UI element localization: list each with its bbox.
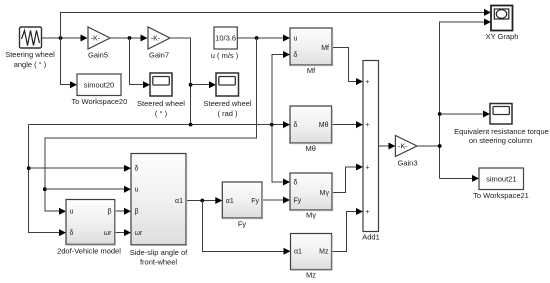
svg-text:δ: δ [294, 122, 298, 129]
node H junction u to side-slip [43, 187, 47, 191]
svg-text:( ° ): ( ° ) [155, 109, 168, 118]
svg-text:α1: α1 [294, 249, 302, 256]
wire: u line down and left to 2dof u input [45, 38, 257, 211]
svg-text:Gain3: Gain3 [397, 158, 417, 167]
wire: node F up to Mf delta input [272, 55, 284, 125]
svg-text:simout21: simout21 [486, 175, 516, 184]
svg-text:u: u [70, 209, 74, 216]
wire: node D to Steered wheel (rad) scope [191, 84, 210, 86]
wire: Fy output to Mgamma Fy input [262, 199, 284, 201]
svg-text:α1: α1 [226, 198, 234, 205]
svg-text:Side-slip angle of: Side-slip angle of [130, 248, 188, 257]
svg-text:10/3.6: 10/3.6 [215, 33, 236, 42]
node C junction on u line [255, 36, 259, 40]
svg-text:Mγ: Mγ [320, 190, 330, 197]
node A junction on steering angle line [59, 36, 63, 40]
svg-text:+: + [365, 165, 369, 172]
svg-text:Fy: Fy [251, 198, 259, 205]
wire: delta rail to Mtheta input [29, 124, 284, 126]
svg-text:on steering column: on steering column [469, 136, 532, 145]
scope: Equivalent resistance torque on steering column [454, 104, 549, 146]
node E junction delta rail [189, 123, 193, 127]
svg-text:Mγ: Mγ [306, 211, 316, 220]
svg-text:Steered wheel: Steered wheel [137, 99, 185, 108]
wire: top rail from node A to XY Graph input 1 [61, 12, 485, 38]
constant 10/3.6 [211, 27, 239, 60]
wire: delta rail left branch down to 2dof delta input [29, 125, 60, 233]
node F junction delta rail [270, 123, 274, 127]
node B junction after Gain5 [128, 36, 132, 40]
subsystem Mgamma [290, 173, 333, 220]
svg-text:front-wheel: front-wheel [140, 258, 177, 267]
svg-text:Mθ: Mθ [305, 144, 315, 153]
svg-text:Gain7: Gain7 [149, 50, 169, 59]
svg-text:α1: α1 [175, 198, 183, 205]
wire: constant 10/3.6 to Mf u input [237, 37, 284, 39]
svg-text:β: β [135, 209, 139, 216]
svg-text:Fy: Fy [238, 219, 247, 228]
svg-text:( rad ): ( rad ) [217, 109, 238, 118]
wire: signal gen to Gain5 [42, 37, 82, 39]
wire: node H to side-slip u input [45, 188, 125, 190]
svg-text:+: + [365, 79, 369, 86]
svg-text:ωr: ωr [104, 230, 112, 237]
node I junction alpha1 [200, 199, 204, 203]
subsystem Mz [291, 234, 333, 280]
svg-text:simout20: simout20 [84, 81, 114, 90]
signal generator: Steering wheel angle [5, 27, 55, 69]
svg-text:Gain5: Gain5 [88, 50, 108, 59]
svg-text:Fy: Fy [294, 197, 302, 204]
wire: node F down to Mgamma delta input [272, 125, 284, 182]
subsystem Fy [222, 182, 262, 228]
gain Gain7 [148, 27, 170, 59]
gain Gain5 [88, 27, 110, 59]
svg-text:-K-: -K- [151, 35, 161, 42]
subsystem Mtheta [290, 106, 332, 153]
wire: Mtheta output to Add1 [332, 124, 358, 126]
wire: Mz output to Add1 [332, 212, 358, 252]
wire: Gain5 to Gain7 [110, 37, 142, 39]
XY Graph block [486, 6, 519, 42]
wire: node G to side-slip delta input [29, 167, 125, 169]
wire: node B down to Steered wheel (deg) scope [130, 38, 145, 85]
scope: Steered wheel (rad) [204, 73, 252, 118]
svg-text:Add1: Add1 [362, 233, 380, 242]
To Workspace20 block simout20 [72, 74, 128, 106]
svg-text:u: u [135, 187, 139, 194]
svg-text:To Workspace21: To Workspace21 [473, 191, 529, 200]
svg-text:-K-: -K- [398, 143, 408, 150]
wire: side-slip alpha1 to Fy [186, 200, 216, 202]
wire: Gain3 output to vertical bus [417, 145, 440, 147]
gain Gain3 [395, 136, 417, 168]
svg-text:+: + [365, 122, 369, 129]
To Workspace21 block simout21 [473, 168, 529, 200]
svg-text:angle ( ° ): angle ( ° ) [14, 60, 47, 69]
svg-text:Mz: Mz [319, 249, 329, 256]
svg-text:u: u [294, 35, 298, 42]
scope: Steered wheel (deg) [137, 73, 185, 118]
subsystem Mf [290, 28, 333, 75]
svg-text:β: β [107, 209, 111, 216]
svg-text:Mf: Mf [321, 45, 329, 52]
svg-text:Equivalent resistance torque: Equivalent resistance torque [454, 127, 549, 136]
wire: Mf output to Add1 [332, 48, 357, 82]
node G junction delta to side-slip [27, 166, 31, 170]
svg-text:Mz: Mz [306, 270, 316, 279]
svg-text:Mθ: Mθ [319, 122, 329, 129]
wire: node A down to To Workspace20 [61, 38, 72, 85]
svg-text:ωr: ωr [135, 230, 143, 237]
sum block Add1 [362, 61, 380, 242]
subsystem 2dof-Vehicle model [57, 200, 121, 256]
node J junction Gain3 output [438, 144, 442, 148]
wire: Mgamma output to Add1 [332, 167, 357, 193]
svg-text:XY Graph: XY Graph [486, 32, 519, 41]
svg-text:Steering wheel: Steering wheel [5, 50, 55, 59]
wire: node I down to Mz alpha1 input [202, 201, 284, 252]
wire: bus down to To Workspace21 [440, 177, 473, 179]
wire: 2dof beta to side-slip beta [115, 210, 125, 212]
node K junction to scope [438, 112, 442, 116]
svg-text:δ: δ [294, 179, 298, 186]
svg-text:2dof-Vehicle model: 2dof-Vehicle model [57, 246, 121, 255]
wire: 2dof omega-r to side-slip omega-r [115, 232, 125, 234]
svg-text:+: + [365, 209, 369, 216]
node D junction to rad scope [189, 83, 193, 87]
svg-text:To Workspace20: To Workspace20 [72, 97, 128, 106]
svg-text:δ: δ [135, 166, 139, 173]
svg-text:-K-: -K- [91, 35, 101, 42]
svg-text:Mf: Mf [307, 66, 316, 75]
svg-text:δ: δ [294, 52, 298, 59]
wire: node K to equivalent torque scope [440, 113, 484, 115]
wire: Gain7 output down to delta rail [170, 38, 191, 125]
subsystem Side-slip angle of front-wheel [130, 154, 188, 267]
svg-text:Steered wheel: Steered wheel [204, 99, 252, 108]
wire: vertical bus up to XY Graph input 2 [440, 22, 485, 178]
svg-text:δ: δ [70, 230, 74, 237]
svg-text:u ( m/s ): u ( m/s ) [211, 51, 239, 60]
wire: Add1 output to Gain3 [379, 145, 390, 147]
